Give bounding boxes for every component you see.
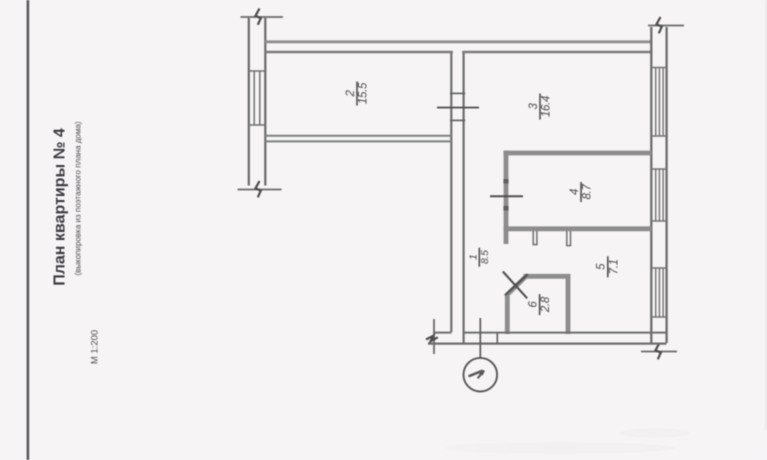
room label 6/2.8 [527, 294, 552, 315]
svg-text:М 1:200: М 1:200 [90, 330, 101, 364]
title: План квартиры № 4 (rotated) [52, 128, 69, 286]
break symbol top-left [241, 9, 284, 25]
faint scan smudge bottom [445, 428, 690, 454]
room label 5/7.1 [596, 256, 621, 277]
scale note М 1:200 (rotated) [90, 330, 101, 364]
bottom wall outer line [428, 343, 667, 345]
room 2 bottom wall (double line) [265, 136, 452, 142]
break symbol top-right [648, 17, 684, 33]
break symbol bottom-left [238, 181, 282, 197]
door X mark stroke 2 [505, 274, 528, 295]
bottom wall inner line (right segment) [464, 332, 666, 334]
break symbol bottom-right [641, 343, 677, 359]
door X mark stroke 1 [503, 272, 527, 299]
svg-text:2: 2 [345, 90, 357, 98]
faint right edge shading [765, 0, 767, 430]
window 3 in right wall [651, 268, 668, 317]
svg-text:План квартиры № 4: План квартиры № 4 [52, 128, 69, 286]
entrance axis line [479, 318, 481, 358]
scan fold dark edge line [27, 0, 30, 460]
svg-text:(выкопировка из поэтажного пла: (выкопировка из поэтажного плана дома) [74, 121, 83, 275]
vent tick 2 below room 4 [566, 231, 571, 246]
svg-text:5: 5 [596, 263, 608, 270]
window 2 in right wall [651, 169, 668, 221]
room 4 bottom wall (thick) [504, 226, 652, 231]
window in left wall [248, 71, 266, 125]
door leaf line room 4 [490, 195, 523, 197]
svg-text:3: 3 [528, 103, 540, 110]
svg-text:1: 1 [467, 254, 479, 260]
room 4 left wall (thick) [504, 151, 509, 244]
svg-text:7.1: 7.1 [608, 259, 620, 274]
room 6 top wall (thick) [524, 274, 571, 279]
svg-text:16.4: 16.4 [541, 96, 553, 117]
svg-text:8.5: 8.5 [479, 250, 491, 264]
partition wall between room 2 and room 3 / corridor (double line) [451, 53, 463, 344]
room 6 left wall (thick) [505, 294, 510, 335]
right outer wall (double line) [651, 27, 666, 343]
gap in top wall inner line at partition [453, 50, 462, 54]
top outer wall (double line) [265, 42, 652, 52]
svg-text:8.7: 8.7 [582, 184, 594, 200]
door hinge marks on room 4 left wall [503, 179, 508, 211]
entrance circle mark [464, 358, 498, 392]
break symbol bottom wall left [426, 319, 438, 354]
window 1 in right wall [651, 68, 668, 137]
door jamb ticks room2-room3 [450, 93, 465, 120]
vent tick 1 below room 4 [533, 231, 538, 245]
svg-text:4: 4 [569, 189, 581, 195]
left outer wall of room 2 (double line) [249, 18, 265, 186]
room label 3/16.4 [528, 94, 553, 120]
room label 4/8.7 [569, 182, 594, 202]
svg-text:6: 6 [527, 301, 539, 308]
room label 2/15.5 [345, 82, 370, 106]
bottom wall jamb tick [496, 333, 498, 344]
apartment number 4 in circle (handwritten squiggle) [470, 371, 484, 378]
svg-text:15.5: 15.5 [358, 82, 370, 104]
svg-text:2.8: 2.8 [540, 296, 552, 313]
room 6 door diagonal (thick) [506, 276, 527, 296]
room 6 right wall (thick) [566, 274, 571, 334]
room 4 top wall (thick) [504, 151, 652, 156]
door leaf line room2-room3 [437, 107, 479, 109]
room label 1/8.5 (corridor) [467, 248, 491, 267]
bottom wall inner line (left segment) [434, 332, 452, 334]
subtitle: выкопировка (rotated) [74, 121, 83, 275]
